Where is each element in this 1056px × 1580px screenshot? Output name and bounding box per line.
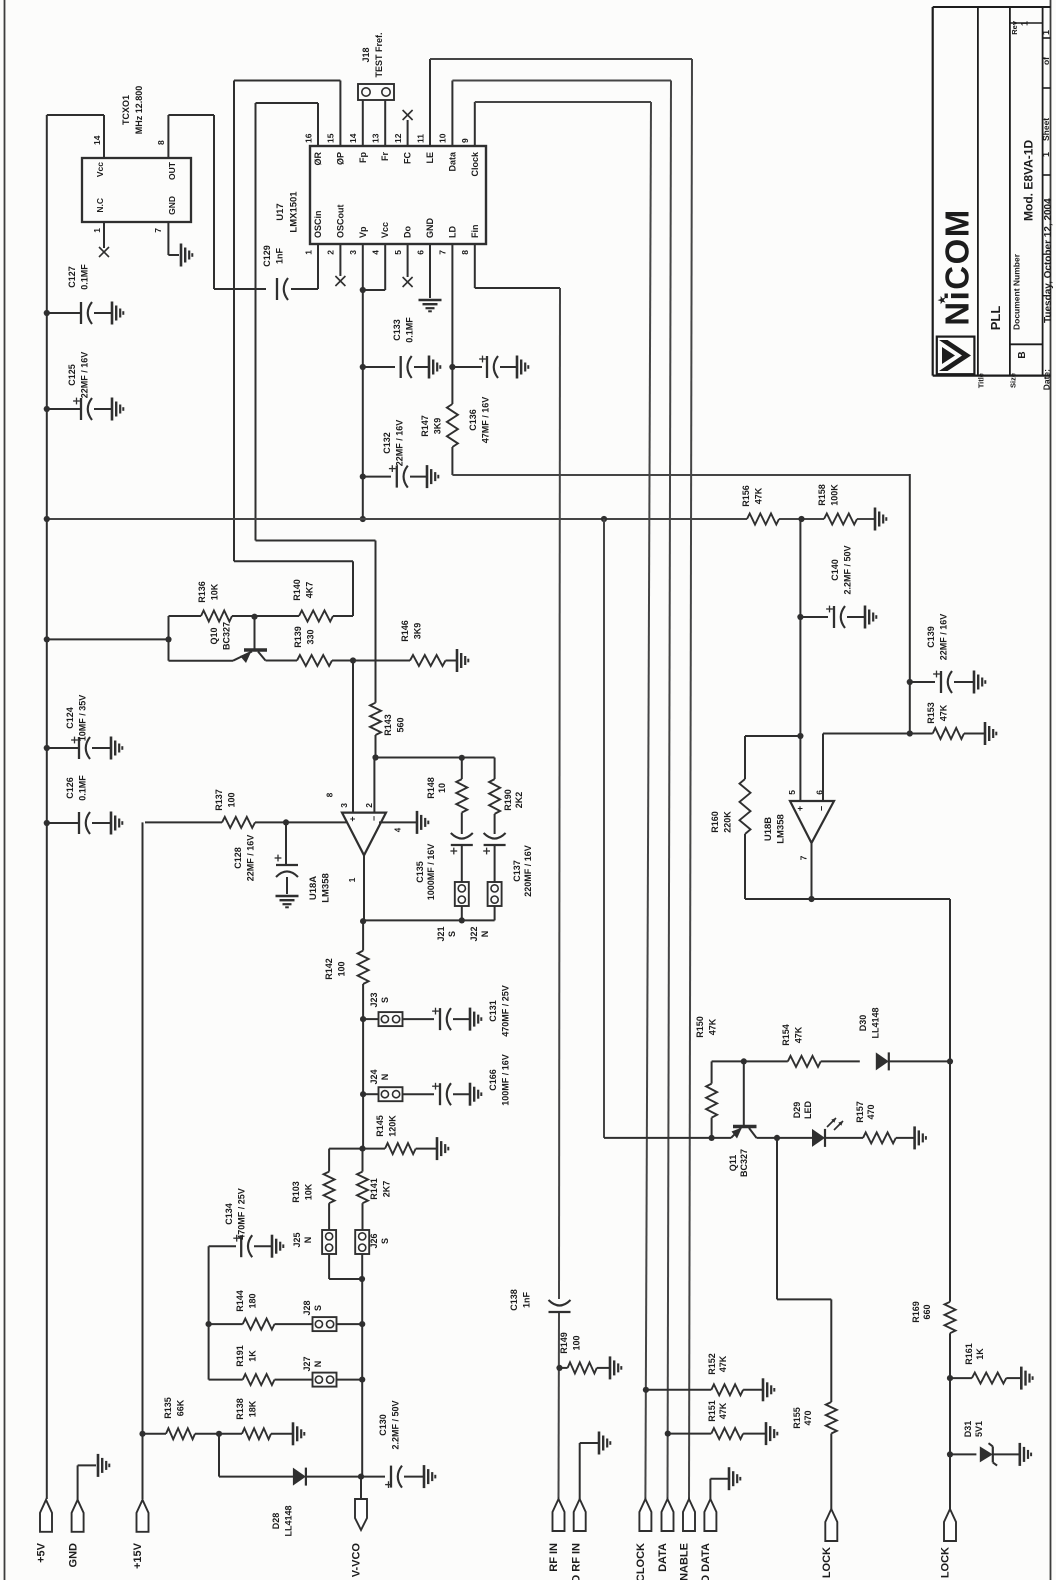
svg-text:C131: C131 [488,1000,498,1022]
svg-text:S: S [380,1238,390,1244]
svg-text:D RF IN: D RF IN [570,1543,582,1580]
svg-text:15: 15 [326,133,336,143]
svg-text:22MF / 16V: 22MF / 16V [245,835,255,882]
svg-text:100: 100 [571,1335,581,1350]
svg-text:1nF: 1nF [274,248,284,265]
svg-text:C133: C133 [392,319,402,341]
svg-text:J22: J22 [469,926,479,941]
svg-text:47K: 47K [718,1402,728,1419]
svg-text:R191: R191 [235,1345,245,1367]
svg-text:+5V: +5V [36,1542,48,1563]
svg-text:J26: J26 [369,1233,379,1248]
svg-text:LD: LD [447,226,457,238]
svg-text:7: 7 [438,250,448,255]
svg-text:ØR: ØR [313,151,323,165]
svg-text:Q11: Q11 [728,1155,738,1172]
svg-text:R145: R145 [375,1115,385,1137]
svg-text:GND: GND [425,218,435,239]
svg-text:660: 660 [922,1304,932,1319]
svg-text:LED: LED [803,1100,813,1119]
svg-text:100K: 100K [829,484,839,506]
svg-text:Clock: Clock [470,151,480,177]
svg-text:R136: R136 [197,581,207,603]
svg-text:J21: J21 [436,926,446,941]
svg-text:Date:: Date: [1041,369,1051,390]
svg-text:ENABLE: ENABLE [679,1543,691,1580]
svg-text:560: 560 [395,717,405,732]
svg-text:4: 4 [371,250,381,255]
svg-text:8: 8 [156,140,166,145]
svg-text:1: 1 [347,877,357,882]
svg-text:MHz 12.800: MHz 12.800 [134,86,144,135]
svg-text:C134: C134 [224,1203,234,1225]
svg-text:220K: 220K [722,811,732,833]
svg-text:J28: J28 [302,1300,312,1315]
svg-text:3K9: 3K9 [432,418,442,435]
svg-text:N: N [313,1361,323,1368]
svg-text:10K: 10K [303,1183,313,1200]
svg-text:5: 5 [393,250,403,255]
svg-text:47K: 47K [753,487,763,504]
svg-text:9: 9 [460,138,470,143]
svg-text:10K: 10K [209,583,219,600]
svg-text:Data: Data [447,151,457,172]
svg-text:R146: R146 [400,620,410,642]
svg-text:100: 100 [336,961,346,976]
svg-text:22MF / 16V: 22MF / 16V [79,352,89,399]
svg-text:470: 470 [803,1410,813,1425]
svg-text:D29: D29 [792,1102,802,1119]
svg-text:+15V: +15V [132,1542,144,1569]
svg-text:1nF: 1nF [521,1292,531,1309]
svg-text:Fp: Fp [358,152,368,163]
svg-text:C129: C129 [262,245,272,267]
svg-text:66K: 66K [175,1399,185,1416]
svg-text:8: 8 [460,250,470,255]
svg-text:J25: J25 [292,1232,302,1247]
svg-text:47K: 47K [707,1018,717,1035]
svg-text:330: 330 [305,629,315,644]
svg-text:DATA: DATA [657,1543,669,1572]
svg-text:R144: R144 [235,1290,245,1312]
svg-text:Mod. E8VA-1D: Mod. E8VA-1D [1021,140,1035,221]
svg-text:OSCin: OSCin [313,210,323,238]
svg-text:TCXO1: TCXO1 [121,95,131,125]
svg-text:R141: R141 [369,1178,379,1200]
svg-text:C130: C130 [378,1414,388,1436]
svg-text:S: S [447,931,457,937]
svg-text:Document Number: Document Number [1011,253,1021,330]
svg-text:47K: 47K [718,1355,728,1372]
svg-text:S: S [313,1305,323,1311]
svg-text:6: 6 [415,250,425,255]
svg-text:Sheet: Sheet [1041,118,1051,141]
svg-text:11: 11 [415,134,425,143]
svg-text:14: 14 [92,135,102,145]
svg-text:14: 14 [348,133,358,143]
svg-text:OUT: OUT [167,161,177,180]
svg-text:Fr: Fr [380,152,390,161]
svg-text:Q10: Q10 [209,627,219,644]
svg-text:10: 10 [438,133,448,143]
svg-text:R161: R161 [964,1343,974,1365]
svg-text:J18: J18 [361,47,371,62]
svg-text:V-VCO: V-VCO [351,1543,363,1578]
svg-text:FC: FC [403,152,413,164]
svg-text:R147: R147 [420,415,430,437]
svg-text:B: B [1017,351,1028,358]
svg-text:R152: R152 [707,1353,717,1375]
svg-text:R143: R143 [383,714,393,736]
svg-text:3K9: 3K9 [412,623,422,640]
svg-text:Title: Title [976,373,985,388]
svg-text:8: 8 [326,792,335,797]
svg-text:D30: D30 [858,1015,868,1032]
svg-text:N.C: N.C [95,198,105,213]
svg-text:N: N [480,931,490,938]
svg-text:220MF / 16V: 220MF / 16V [523,845,533,897]
svg-text:Fin: Fin [470,225,480,239]
svg-text:Vcc: Vcc [380,222,390,238]
svg-text:47K: 47K [938,704,948,721]
svg-text:R160: R160 [710,811,720,833]
svg-text:R142: R142 [324,958,334,980]
svg-text:GND: GND [167,196,177,215]
svg-text:TEST Fref.: TEST Fref. [374,32,384,77]
svg-text:−: − [816,806,826,811]
svg-text:7: 7 [798,855,808,860]
svg-text:C136: C136 [468,409,478,431]
svg-text:12: 12 [393,133,403,143]
svg-text:R153: R153 [926,702,936,724]
svg-text:N: N [380,1074,390,1081]
svg-text:5: 5 [787,790,797,795]
svg-text:R137: R137 [214,789,224,811]
svg-text:R139: R139 [293,626,303,648]
svg-text:R154: R154 [781,1024,791,1046]
svg-text:R150: R150 [695,1016,705,1038]
svg-text:7: 7 [153,228,163,233]
svg-text:S: S [380,997,390,1003]
svg-text:2K7: 2K7 [381,1181,391,1198]
svg-text:1: 1 [1041,30,1051,35]
svg-text:C125: C125 [67,364,77,386]
svg-text:16: 16 [303,133,313,143]
svg-text:1: 1 [303,250,313,255]
svg-text:R149: R149 [559,1332,569,1354]
svg-text:R140: R140 [292,579,302,601]
svg-text:470MF / 25V: 470MF / 25V [500,985,510,1037]
svg-text:Vcc: Vcc [95,162,105,177]
svg-text:100MF / 16V: 100MF / 16V [500,1054,510,1106]
svg-text:PLL: PLL [988,306,1003,331]
svg-text:D28: D28 [271,1513,281,1530]
svg-text:180: 180 [247,1293,257,1308]
svg-text:1000MF / 16V: 1000MF / 16V [426,844,436,901]
svg-text:R158: R158 [817,484,827,506]
svg-text:R169: R169 [911,1301,921,1323]
svg-text:U18A: U18A [308,876,319,900]
svg-text:18K: 18K [247,1400,257,1417]
svg-text:LMX1501: LMX1501 [289,191,300,233]
svg-text:0.1MF: 0.1MF [79,264,89,290]
svg-text:of: of [1041,57,1051,65]
svg-text:C132: C132 [382,432,392,454]
svg-text:LL4148: LL4148 [870,1007,880,1038]
svg-text:0.1MF: 0.1MF [404,317,414,343]
svg-text:3: 3 [339,803,349,808]
svg-text:J23: J23 [369,992,379,1007]
svg-text:1: 1 [1041,152,1051,157]
svg-text:LL4148: LL4148 [283,1505,293,1536]
svg-text:1K: 1K [975,1348,985,1360]
svg-text:3: 3 [348,250,358,255]
svg-text:D LOCK: D LOCK [821,1547,833,1580]
svg-text:R157: R157 [855,1101,865,1123]
svg-text:22MF / 16V: 22MF / 16V [938,614,948,661]
svg-text:2: 2 [326,250,336,255]
svg-text:J24: J24 [369,1069,379,1084]
svg-text:+: + [347,816,357,821]
svg-text:47K: 47K [793,1026,803,1043]
svg-text:Vp: Vp [358,226,368,238]
svg-text:C128: C128 [233,847,243,869]
svg-text:R135: R135 [163,1397,173,1419]
svg-text:Size: Size [1008,373,1017,388]
svg-text:100: 100 [226,792,236,807]
svg-text:D31: D31 [963,1421,973,1438]
svg-text:ØP: ØP [335,152,345,165]
svg-text:LE: LE [425,152,435,164]
svg-text:2.2MF / 50V: 2.2MF / 50V [390,1400,400,1449]
svg-text:★: ★ [937,295,949,305]
svg-text:−: − [369,816,379,821]
svg-text:C135: C135 [415,861,425,883]
svg-text:N: N [303,1237,313,1244]
svg-text:U17: U17 [275,203,286,220]
svg-text:NiCOM: NiCOM [938,208,975,326]
svg-text:2K2: 2K2 [514,792,524,809]
svg-text:1: 1 [1019,21,1029,26]
svg-text:4K7: 4K7 [304,582,314,599]
svg-text:OSCout: OSCout [335,205,345,239]
svg-text:47MF / 16V: 47MF / 16V [480,397,490,444]
svg-text:Rev: Rev [1010,20,1019,35]
svg-text:Tuesday, October 12, 2004: Tuesday, October 12, 2004 [1043,198,1054,323]
svg-text:13: 13 [371,133,381,143]
svg-text:470: 470 [866,1104,876,1119]
svg-text:C166: C166 [488,1069,498,1091]
svg-text:1K: 1K [247,1350,257,1362]
svg-text:R190: R190 [503,789,513,811]
svg-text:C139: C139 [926,626,936,648]
svg-text:C140: C140 [830,559,840,581]
svg-text:R155: R155 [792,1407,802,1429]
svg-text:D DATA: D DATA [700,1543,712,1580]
svg-text:R138: R138 [235,1398,245,1420]
svg-text:CLOCK: CLOCK [635,1543,647,1580]
svg-text:U18B: U18B [763,817,774,841]
svg-text:0.1MF: 0.1MF [77,775,87,801]
svg-text:22MF / 16V: 22MF / 16V [394,420,404,467]
svg-text:. LOCK: . LOCK [940,1547,952,1580]
svg-text:R148: R148 [426,777,436,799]
svg-text:LM358: LM358 [321,873,332,903]
svg-text:2.2MF / 50V: 2.2MF / 50V [842,545,852,594]
svg-text:BC327: BC327 [221,622,231,650]
svg-text:C137: C137 [512,860,522,882]
svg-text:C127: C127 [67,266,77,288]
svg-text:4: 4 [394,827,403,832]
svg-text:LM358: LM358 [776,814,787,844]
svg-text:10: 10 [437,783,447,793]
svg-text:R156: R156 [741,485,751,507]
svg-text:J27: J27 [302,1356,312,1371]
svg-text:+: + [795,806,805,811]
svg-text:R103: R103 [291,1181,301,1203]
svg-text:GND: GND [68,1543,80,1568]
svg-text:120K: 120K [387,1115,397,1137]
svg-text:10MF / 35V: 10MF / 35V [77,695,87,742]
svg-text:470MF / 25V: 470MF / 25V [236,1188,246,1240]
svg-text:R151: R151 [707,1400,717,1422]
svg-text:RF IN: RF IN [548,1543,560,1572]
svg-text:2: 2 [364,803,374,808]
svg-text:C138: C138 [509,1289,519,1311]
svg-text:1: 1 [92,228,102,233]
svg-text:C124: C124 [65,707,75,729]
svg-text:Do: Do [403,226,413,238]
svg-text:5V1: 5V1 [974,1421,984,1437]
svg-text:BC327: BC327 [739,1149,749,1177]
svg-text:C126: C126 [65,777,75,799]
